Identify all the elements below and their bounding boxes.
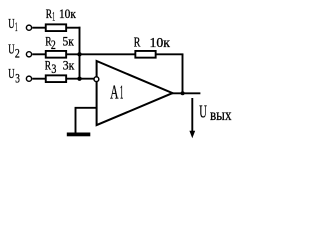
svg-text:3к: 3к xyxy=(63,59,75,73)
svg-text:5к: 5к xyxy=(63,34,75,48)
label R 10к (feedback) xyxy=(134,36,170,51)
svg-text:U: U xyxy=(8,16,15,31)
svg-text:1: 1 xyxy=(52,9,55,23)
wire R3 to op-amp inverting input xyxy=(66,78,95,80)
label R1 10к xyxy=(46,6,77,24)
label U3 xyxy=(8,66,19,85)
svg-text:1: 1 xyxy=(15,20,18,34)
inversion circle at inverting input xyxy=(94,77,99,82)
svg-text:2: 2 xyxy=(51,38,56,52)
input terminal U2 xyxy=(26,52,31,57)
wire U2 to R2 xyxy=(32,53,45,55)
arrow Uвых (output voltage) xyxy=(189,98,195,138)
svg-text:3: 3 xyxy=(15,71,20,85)
wire R2 to feedback node (continues to feedback resistor) xyxy=(66,53,135,55)
svg-text:U: U xyxy=(8,66,15,81)
label U1 xyxy=(8,16,17,34)
op-amp A1 xyxy=(97,61,173,125)
svg-text:U: U xyxy=(199,102,207,122)
wire U3 to R3 xyxy=(32,78,45,80)
svg-text:2: 2 xyxy=(15,46,20,60)
svg-text:R: R xyxy=(45,58,52,73)
ground xyxy=(67,133,91,137)
svg-text:вых: вых xyxy=(210,107,232,124)
wire feedback vertical xyxy=(182,54,184,93)
label R3 3к xyxy=(45,58,75,77)
wire output xyxy=(172,92,201,94)
input terminal U1 xyxy=(26,25,31,30)
input terminal U3 xyxy=(26,76,31,81)
svg-text:1: 1 xyxy=(120,83,124,104)
junction bus/R2 xyxy=(77,52,81,56)
wire U1 to R1 xyxy=(32,27,45,29)
label A1 xyxy=(110,83,123,104)
label R2 5к xyxy=(45,33,74,52)
junction bus/R3 xyxy=(77,77,81,81)
wire feedback resistor to output node xyxy=(156,53,184,55)
svg-text:10к: 10к xyxy=(150,36,171,51)
svg-text:3: 3 xyxy=(51,62,56,76)
svg-text:A: A xyxy=(110,83,118,104)
resistor R1 xyxy=(46,24,66,31)
label Uвых xyxy=(199,102,231,124)
wire summing bus vertical xyxy=(79,27,81,79)
svg-text:R: R xyxy=(134,36,141,51)
svg-text:U: U xyxy=(8,42,15,57)
resistor R (feedback) xyxy=(135,51,155,58)
resistor R2 xyxy=(46,51,66,58)
wire R1 to bus xyxy=(66,27,80,29)
junction output/feedback xyxy=(181,91,185,95)
wire non-inverting input xyxy=(76,108,97,133)
svg-text:10к: 10к xyxy=(59,7,77,21)
resistor R3 xyxy=(46,75,66,82)
label U2 xyxy=(8,42,19,61)
